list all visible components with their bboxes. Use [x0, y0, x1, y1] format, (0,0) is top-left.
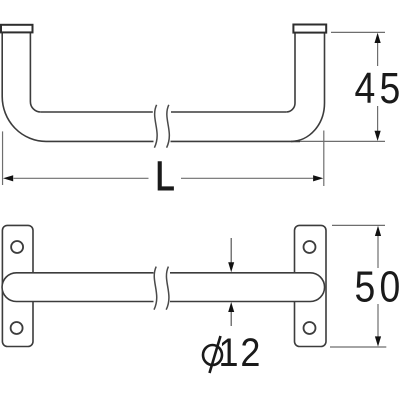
svg-text:45: 45 [354, 63, 400, 113]
svg-text:12: 12 [219, 331, 263, 375]
svg-text:L: L [155, 154, 174, 199]
svg-text:50: 50 [354, 262, 400, 312]
